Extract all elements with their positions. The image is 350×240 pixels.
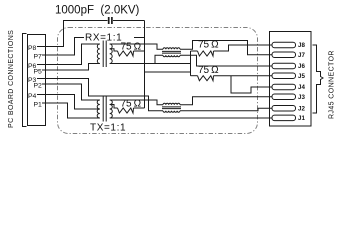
right connector box xyxy=(270,32,312,127)
RJ45 pin J8 xyxy=(272,42,296,48)
transformer RX label xyxy=(84,31,134,42)
svg-text:P7: P7 xyxy=(34,54,43,61)
choke L1 core xyxy=(162,50,181,52)
bracket left xyxy=(23,34,27,127)
wire RX secondary bottom to choke L1 xyxy=(110,63,191,65)
svg-text:P5: P5 xyxy=(34,69,43,76)
choke L1 bottom winding xyxy=(163,55,180,56)
termination branch to resistor bus xyxy=(145,71,191,73)
svg-text:1000pF (2.0KV): 1000pF (2.0KV) xyxy=(55,5,140,17)
RJ45 pin J2 xyxy=(272,106,296,112)
svg-text:J8: J8 xyxy=(298,42,305,49)
transformer T2 TX core xyxy=(102,97,104,122)
choke L2 core xyxy=(162,106,181,108)
wire P1 to TX primary bottom xyxy=(42,103,100,118)
choke L2 top winding xyxy=(163,103,180,104)
wire P6 to RX primary top xyxy=(37,44,100,65)
bracket right xyxy=(313,45,324,113)
RJ45 pin J5 xyxy=(272,73,296,79)
choke L1 top winding xyxy=(163,48,180,49)
capacitor C1 1000pF 2KV xyxy=(108,17,110,24)
RJ45 pin J1 xyxy=(272,115,296,121)
svg-text:P8: P8 xyxy=(28,45,37,52)
svg-text:P2: P2 xyxy=(34,83,43,90)
svg-text:J7: J7 xyxy=(298,52,305,59)
svg-text:75 Ω: 75 Ω xyxy=(198,40,219,51)
wire P4 to TX center tap xyxy=(37,95,100,110)
resistor bus vertical xyxy=(190,51,192,76)
termination spine (cap to R4) xyxy=(144,21,146,109)
RJ45 pin J3 xyxy=(272,94,296,100)
svg-text:P1: P1 xyxy=(34,102,43,109)
svg-text:75 Ω: 75 Ω xyxy=(121,99,142,110)
svg-text:J1: J1 xyxy=(298,115,305,122)
resistor R2 75 ohm to J8 xyxy=(191,50,198,52)
resistor R3 75 ohm to J5 J4 xyxy=(191,75,198,77)
svg-text:75 Ω: 75 Ω xyxy=(121,42,142,53)
svg-text:J4: J4 xyxy=(298,84,305,91)
transformer T1 RX left winding xyxy=(97,44,99,64)
resistor R4 75 ohm xyxy=(110,105,118,109)
wire choke L2 bottom out to J2 xyxy=(180,108,272,111)
transformer T1 RX right winding xyxy=(110,44,112,64)
wire choke L1 top out to J7 xyxy=(180,41,272,55)
module boundary (dash-dot rounded box) xyxy=(58,28,258,134)
svg-text:J3: J3 xyxy=(298,94,305,101)
left connector box xyxy=(28,35,46,126)
wire P5 to RX primary bottom xyxy=(42,64,100,71)
transformer T2 TX left winding xyxy=(97,100,100,118)
svg-text:75 Ω: 75 Ω xyxy=(198,65,219,76)
RJ45 pin J4 xyxy=(272,84,296,90)
wire P7 to top bypass xyxy=(42,38,145,56)
RJ45 pin J6 xyxy=(272,63,296,69)
choke L2 bottom winding xyxy=(163,111,180,112)
svg-text:J2: J2 xyxy=(298,106,305,113)
wire stub to choke L1 bottom in xyxy=(155,55,163,63)
transformer T2 TX right winding xyxy=(110,100,113,118)
wire choke L2 top out to J3 xyxy=(180,97,272,105)
wire P2 to TX primary top xyxy=(42,84,100,100)
wire P3 bypass to choke L2 bottom xyxy=(37,79,163,111)
svg-text:J5: J5 xyxy=(298,73,305,80)
transformer T1 RX core xyxy=(102,41,104,68)
svg-text:P4: P4 xyxy=(28,93,37,100)
wire J5 J4 tie xyxy=(231,76,272,93)
wire TX secondary top to choke L2 xyxy=(110,100,163,105)
wire RX secondary top to choke L1 xyxy=(110,44,163,49)
svg-text:RJ45 CONNECTOR: RJ45 CONNECTOR xyxy=(329,50,336,119)
wire P8 to capacitor xyxy=(37,21,108,47)
svg-text:PC BOARD CONNECTIONS: PC BOARD CONNECTIONS xyxy=(8,30,15,128)
resistor R1 75 ohm xyxy=(110,49,118,51)
wire choke L1 bottom out to J6 xyxy=(180,55,272,66)
svg-text:TX=1:1: TX=1:1 xyxy=(90,123,126,134)
wire capacitor to spine xyxy=(113,20,145,22)
svg-text:J6: J6 xyxy=(298,63,305,70)
RJ45 pin J7 xyxy=(272,52,296,58)
wire TX secondary bottom to J1 xyxy=(110,117,272,119)
